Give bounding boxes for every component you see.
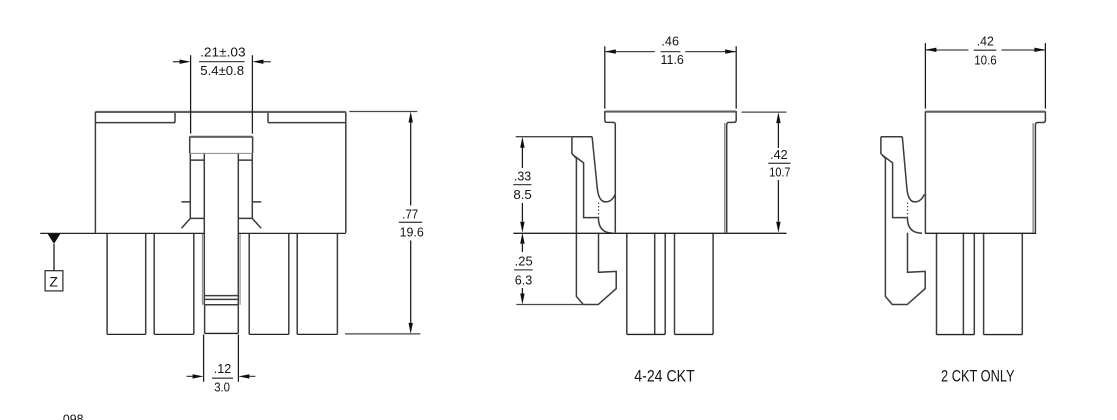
svg-text:10.7: 10.7 [769, 166, 790, 180]
svg-text:Z: Z [49, 273, 58, 289]
svg-text:.46: .46 [661, 35, 679, 49]
svg-text:.33: .33 [514, 170, 531, 184]
svg-text:4-24 CKT: 4-24 CKT [634, 368, 695, 386]
svg-text:2 CKT ONLY: 2 CKT ONLY [941, 368, 1015, 386]
svg-text:10.6: 10.6 [974, 53, 997, 67]
svg-text:3.0: 3.0 [214, 380, 230, 394]
svg-text:.42: .42 [770, 148, 788, 162]
svg-text:.77: .77 [402, 207, 418, 221]
svg-text:11.6: 11.6 [661, 53, 684, 67]
svg-text:.098: .098 [60, 413, 84, 420]
svg-text:.12: .12 [214, 362, 232, 376]
svg-text:.42: .42 [977, 35, 994, 49]
svg-text:5.4±0.8: 5.4±0.8 [200, 64, 244, 78]
svg-text:.21±.03: .21±.03 [200, 46, 246, 60]
svg-text:19.6: 19.6 [400, 225, 424, 239]
svg-text:8.5: 8.5 [513, 188, 532, 202]
svg-text:.25: .25 [515, 254, 533, 268]
svg-text:6.3: 6.3 [515, 273, 533, 287]
